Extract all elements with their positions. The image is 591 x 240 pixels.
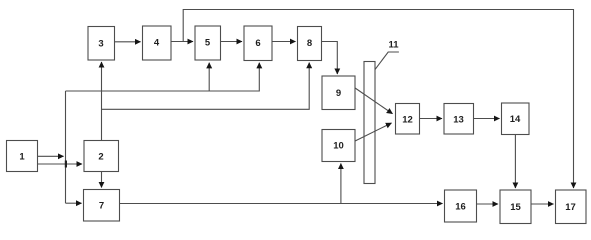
svg-text:4: 4	[154, 38, 160, 49]
svg-text:15: 15	[510, 202, 521, 213]
svg-text:16: 16	[455, 202, 466, 213]
svg-text:1: 1	[19, 152, 25, 163]
svg-text:13: 13	[453, 115, 464, 126]
svg-text:10: 10	[333, 141, 344, 152]
svg-text:3: 3	[98, 39, 103, 50]
svg-text:12: 12	[402, 115, 413, 126]
svg-text:14: 14	[510, 114, 521, 125]
svg-text:9: 9	[336, 88, 341, 99]
svg-text:17: 17	[565, 202, 576, 213]
svg-text:5: 5	[205, 38, 211, 49]
svg-text:11: 11	[388, 40, 399, 51]
svg-text:8: 8	[307, 38, 312, 49]
svg-text:6: 6	[255, 38, 260, 49]
svg-text:7: 7	[99, 201, 104, 212]
svg-text:2: 2	[98, 152, 103, 163]
